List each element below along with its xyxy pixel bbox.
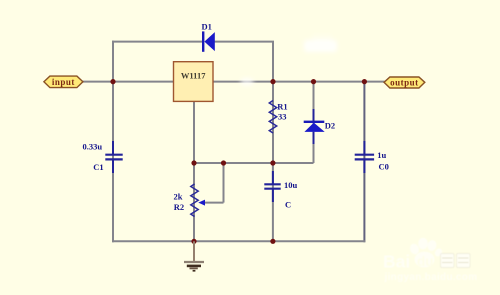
diode D2 triangle	[304, 123, 324, 132]
svg-text:output: output	[390, 77, 419, 87]
potentiometer R2 zigzag	[191, 184, 198, 217]
svg-text:0.33u: 0.33u	[83, 141, 103, 151]
watermark baidu logo text	[383, 252, 410, 272]
diode D1 cathode bar	[202, 31, 204, 51]
port output body	[384, 77, 425, 88]
wire R2 wiper riser	[223, 163, 225, 203]
junction wiper node	[221, 160, 226, 165]
svg-text:10u: 10u	[284, 180, 298, 190]
capacitor C1 plates	[105, 155, 122, 160]
diode D1 triangle	[204, 32, 214, 51]
svg-text:D2: D2	[325, 121, 335, 131]
junction ground node	[191, 239, 196, 244]
svg-text:1u: 1u	[377, 150, 386, 160]
diode D2 cathode bar	[304, 121, 325, 123]
svg-text:D1: D1	[202, 22, 212, 32]
watermark smudge on wire	[240, 78, 254, 86]
svg-text:du: du	[417, 254, 434, 269]
wire junction-to-regulator-input	[113, 81, 174, 83]
capacitor C1 pins	[112, 141, 114, 155]
junction R1-C node	[270, 160, 275, 165]
junction input node	[110, 79, 115, 84]
wire R2 branch	[193, 163, 195, 242]
wire top rail right of D1	[215, 41, 275, 43]
svg-text:33: 33	[278, 112, 287, 122]
junction adj node left	[191, 160, 196, 165]
svg-text:Bai: Bai	[383, 252, 410, 272]
svg-text:C1: C1	[93, 162, 103, 172]
svg-text:jingyan.baidu.com: jingyan.baidu.com	[384, 272, 478, 283]
junction D1 output node	[270, 79, 275, 84]
ground bar 3	[190, 267, 198, 269]
svg-text:2k: 2k	[174, 192, 183, 202]
watermark smudge top	[304, 35, 337, 52]
wire C0 branch	[363, 82, 365, 243]
capacitor C0 pins	[363, 141, 365, 173]
junction C0 top node	[362, 79, 367, 84]
ground stub	[193, 241, 195, 262]
wire D1 branch down to output rail	[272, 42, 274, 82]
ground bar 2	[187, 265, 201, 268]
wire output rail	[213, 81, 385, 83]
svg-text:C0: C0	[379, 161, 389, 171]
capacitor C0 plates	[355, 155, 374, 160]
wire C branch	[272, 163, 274, 242]
resistor R1 zigzag	[269, 101, 276, 134]
capacitor C plates	[264, 184, 280, 188]
svg-text:input: input	[52, 77, 75, 87]
wire top rail left of D1	[112, 41, 203, 43]
junction C bottom node	[270, 239, 275, 244]
junction D2 top node	[311, 79, 316, 84]
wire ground rail	[112, 240, 365, 242]
ground bar 1	[184, 261, 204, 263]
wire adjust rail	[194, 162, 314, 164]
watermark baidu paw	[409, 238, 444, 268]
port input body	[44, 76, 83, 88]
capacitor C1 lower pin	[112, 159, 114, 173]
diode D2 pins	[313, 109, 315, 144]
ground bar 4	[193, 270, 196, 272]
wire D2 branch	[313, 82, 315, 163]
wire R2 wiper	[203, 202, 224, 204]
regulator U1 W1117 body	[174, 62, 214, 102]
wire regulator adj pin down	[193, 102, 195, 164]
svg-text:C: C	[285, 200, 291, 210]
svg-text:R2: R2	[174, 202, 184, 212]
watermark jingyan characters	[441, 254, 471, 268]
wire input-to-junction	[82, 81, 113, 83]
potentiometer R2 wiper arrow	[198, 200, 205, 206]
wire left vertical	[112, 41, 114, 243]
svg-text:R1: R1	[277, 102, 287, 112]
wire R1 branch	[272, 82, 274, 163]
capacitor C pins	[272, 171, 274, 202]
svg-text:W1117: W1117	[181, 70, 206, 80]
